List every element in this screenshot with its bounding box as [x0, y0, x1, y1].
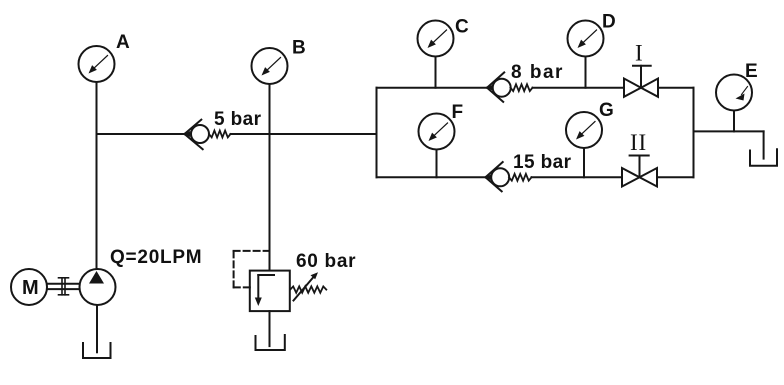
gauge C	[418, 21, 454, 88]
gauge B	[252, 48, 288, 84]
wire node B vertical to relief valve	[269, 84, 271, 271]
gauge D	[568, 21, 604, 88]
wire relief valve to tank	[269, 311, 271, 346]
shutoff valve II	[622, 156, 657, 187]
wire pump to node A vertical	[96, 82, 98, 269]
gauge G	[566, 112, 602, 177]
svg-text:15 bar: 15 bar	[513, 152, 572, 173]
wire outlet horizontal	[694, 130, 764, 132]
hydraulic pump P1	[80, 269, 116, 305]
shaft wire motor to pump	[47, 284, 80, 289]
gauge E	[716, 75, 752, 132]
manifold right vertical wire	[693, 88, 695, 178]
gauge F	[419, 114, 455, 178]
svg-text:Q=20LPM: Q=20LPM	[110, 247, 202, 268]
svg-text:II: II	[630, 130, 647, 155]
svg-text:60 bar: 60 bar	[296, 251, 356, 272]
wire bottom branch right	[657, 176, 694, 178]
wire check valve to manifold left	[231, 133, 377, 135]
wire top branch right	[658, 87, 694, 89]
check valve CV3 15 bar	[485, 162, 531, 191]
svg-text:E: E	[745, 61, 758, 82]
wire pump to tank	[96, 305, 98, 352]
electric motor M1	[11, 269, 47, 305]
tank T1 outlet	[750, 149, 777, 165]
relief valve adjustment arrow	[294, 272, 319, 300]
coupling	[59, 278, 69, 295]
relief valve spring	[290, 286, 326, 292]
svg-text:5 bar: 5 bar	[214, 109, 262, 130]
wire bottom branch left	[377, 176, 486, 178]
svg-text:F: F	[452, 102, 464, 123]
svg-text:B: B	[292, 38, 306, 59]
wire top branch left	[377, 87, 488, 89]
pilot line dashed	[234, 251, 270, 288]
manifold left vertical wire	[376, 88, 378, 178]
relief valve RV1 60 bar	[250, 271, 290, 312]
wire outlet down to tank	[763, 131, 765, 158]
wire main horizontal from node A to check valve	[97, 133, 185, 135]
check valve CV2 8 bar	[487, 72, 533, 101]
svg-text:D: D	[602, 12, 616, 33]
svg-text:M: M	[22, 277, 39, 299]
svg-text:C: C	[455, 17, 469, 38]
svg-text:G: G	[599, 100, 614, 121]
tank T2 pump	[83, 343, 111, 358]
svg-text:I: I	[635, 41, 643, 66]
wire top branch middle	[533, 87, 625, 89]
gauge A	[79, 46, 115, 82]
wire bottom branch middle	[532, 176, 623, 178]
shutoff valve I	[624, 66, 658, 97]
check valve CV1 5 bar	[184, 120, 230, 150]
svg-text:A: A	[116, 32, 130, 53]
svg-text:8 bar: 8 bar	[511, 62, 564, 83]
tank T3 relief	[256, 335, 285, 350]
